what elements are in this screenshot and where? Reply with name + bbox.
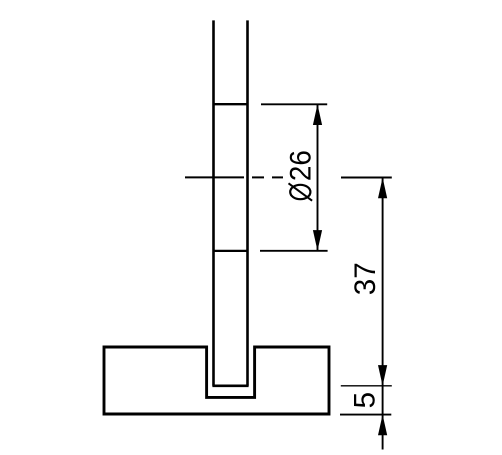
- svg-text:37: 37: [349, 262, 382, 295]
- svg-text:26: 26: [285, 150, 318, 181]
- svg-text:5: 5: [349, 392, 382, 409]
